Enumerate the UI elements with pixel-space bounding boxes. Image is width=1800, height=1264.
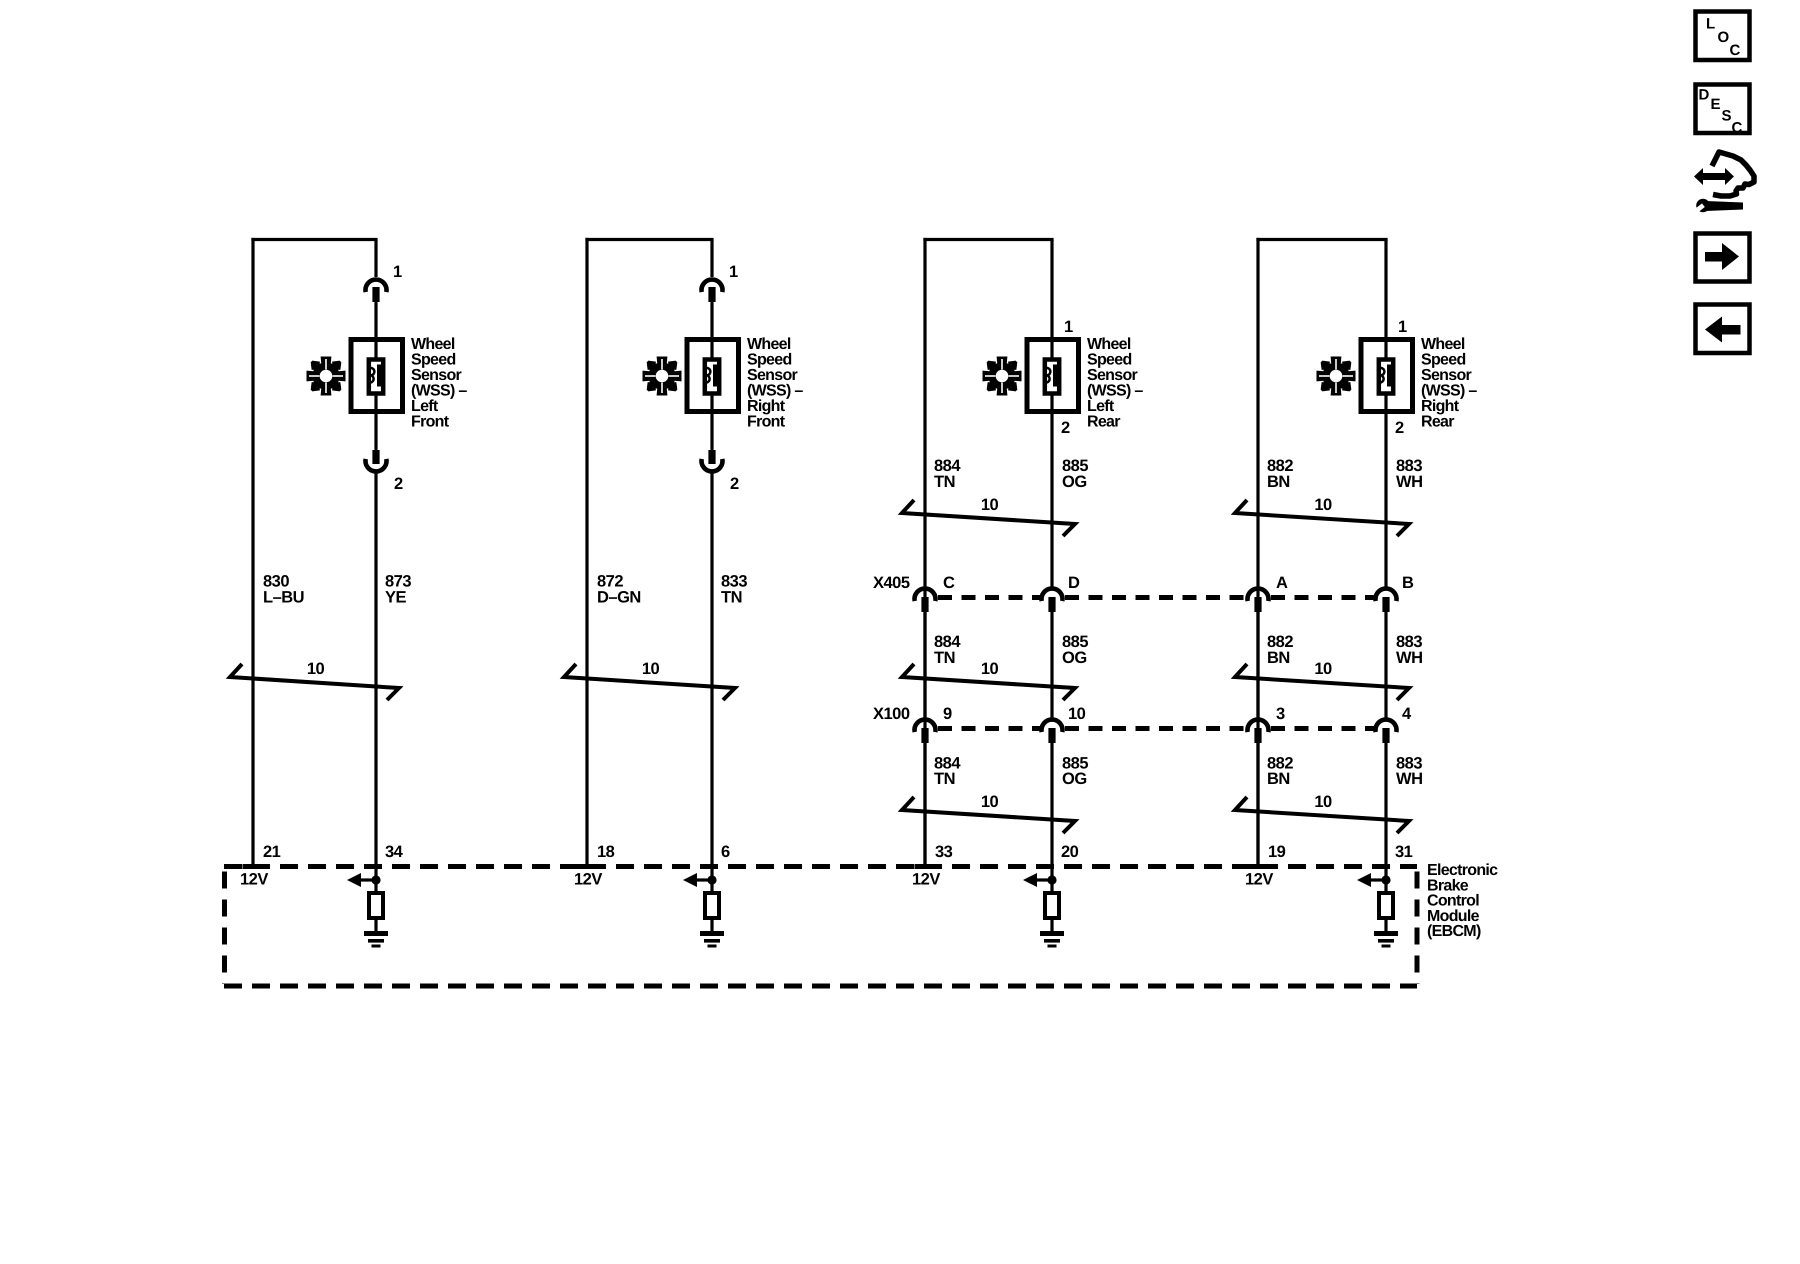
svg-text:X100: X100 [873, 705, 910, 723]
svg-text:Rear: Rear [1421, 413, 1454, 430]
EBCM pin 6 label [721, 843, 730, 861]
wire label 883 WH [1396, 457, 1423, 491]
label: Wheel Speed Sensor (WSS) Right Rear [1421, 336, 1477, 431]
icon: right arrow box [1696, 234, 1750, 282]
svg-text:21: 21 [263, 843, 281, 861]
sensor WSS Left Rear [1027, 340, 1079, 412]
svg-text:10: 10 [981, 496, 999, 514]
svg-text:33: 33 [935, 843, 953, 861]
svg-text:10: 10 [642, 660, 660, 678]
pin 1 label [1064, 318, 1073, 336]
wire label 884 TN [934, 457, 961, 491]
wire through sensor box down to X405 [1050, 240, 1053, 588]
EBCM pin 33 label [935, 843, 953, 861]
resistor (EBCM internal, pin 34) [369, 893, 383, 918]
svg-text:D: D [1068, 574, 1080, 592]
svg-text:10: 10 [981, 793, 999, 811]
svg-text:Wheel: Wheel [411, 336, 455, 353]
twisted pair crossing upper (Right Rear) [1235, 496, 1409, 536]
svg-text:2: 2 [1061, 419, 1070, 437]
connector X405 terminal C [915, 589, 936, 612]
node label 12V [574, 871, 602, 889]
node label 12V [1245, 871, 1273, 889]
svg-text:TN: TN [934, 770, 955, 788]
svg-text:Sensor: Sensor [747, 367, 798, 384]
svg-text:B: B [1402, 574, 1414, 592]
connector X100 label [873, 705, 910, 723]
pin 2 label [394, 475, 403, 493]
svg-text:2: 2 [394, 475, 403, 493]
svg-text:12V: 12V [574, 871, 602, 889]
svg-text:10: 10 [1314, 496, 1332, 514]
wire label 883 WH (mid) [1396, 633, 1423, 667]
svg-text:X405: X405 [873, 574, 910, 592]
wire X100 to EBCM (right) [1050, 743, 1053, 867]
icon: diagnostic (arrows + wrench) [1693, 152, 1754, 214]
svg-text:Speed: Speed [1087, 351, 1132, 368]
connector X405 terminal B [1376, 589, 1397, 612]
wire: Right Front WSS pin 1 loop from EBCM pin 18 [585, 238, 713, 865]
svg-text:Speed: Speed [1421, 351, 1466, 368]
svg-text:10: 10 [307, 660, 325, 678]
gear (wheel tone ring) Right Rear [1317, 357, 1356, 396]
svg-text:TN: TN [934, 473, 955, 491]
svg-text:(WSS) –: (WSS) – [747, 382, 803, 399]
EBCM pin 20 label [1061, 843, 1079, 861]
signal arrow into EBCM [683, 873, 717, 887]
EBCM pin 18 label [597, 843, 615, 861]
X100 pin number 9 [943, 705, 952, 723]
wire label 830 L–BU [263, 573, 304, 607]
svg-text:19: 19 [1268, 843, 1286, 861]
svg-text:20: 20 [1061, 843, 1079, 861]
wire X100 to EBCM (left) [923, 743, 926, 865]
svg-text:2: 2 [1395, 419, 1404, 437]
wire X100 to EBCM (right) [1384, 743, 1387, 867]
pin 1 label [393, 263, 402, 281]
connector X100 terminal 10 [1042, 720, 1063, 743]
svg-text:Front: Front [411, 413, 450, 430]
signal arrow into EBCM [1357, 873, 1391, 887]
sensor WSS Left Front [351, 340, 403, 412]
svg-text:18: 18 [597, 843, 615, 861]
wire resistor to ground [1050, 920, 1053, 933]
wire pin 2 down to EBCM [374, 473, 377, 867]
node label 12V [912, 871, 940, 889]
terminal pad pin 18 at EBCM [577, 864, 598, 869]
svg-text:Left: Left [411, 398, 439, 415]
wire pin 2 down to EBCM [710, 473, 713, 867]
svg-text:BN: BN [1267, 770, 1290, 788]
connector X405 terminal D [1042, 589, 1063, 612]
twisted pair crossing middle (Left Rear) [902, 660, 1075, 700]
pin 1 label [1398, 318, 1407, 336]
svg-text:WH: WH [1396, 770, 1423, 788]
connector X405 dashed harness line [938, 595, 1374, 600]
gear (wheel tone ring) Left Front [307, 357, 346, 396]
svg-text:WH: WH [1396, 473, 1423, 491]
sensor WSS Right Rear [1361, 340, 1413, 412]
wire label 885 OG (mid) [1062, 633, 1088, 667]
svg-text:2: 2 [730, 475, 739, 493]
svg-text:4: 4 [1402, 705, 1412, 723]
svg-text:Wheel: Wheel [1421, 336, 1465, 353]
wire X405 to X100 (right) [1384, 612, 1387, 718]
X405 pin letter C [943, 574, 955, 592]
ground symbol [1374, 931, 1398, 948]
twisted pair crossing upper (Left Rear) [902, 496, 1075, 536]
label: Wheel Speed Sensor (WSS) Left Rear [1087, 336, 1143, 431]
resistor (EBCM internal, pin 31) [1379, 893, 1393, 918]
X405 pin letter D [1068, 574, 1080, 592]
gear (wheel tone ring) Left Rear [983, 357, 1022, 396]
svg-text:Front: Front [747, 413, 786, 430]
svg-text:OG: OG [1062, 770, 1087, 788]
wire: Right Rear WSS pin 1 loop from EBCM pin 19 [1256, 238, 1387, 865]
svg-text:Sensor: Sensor [1087, 367, 1138, 384]
wire label 873 YE [385, 573, 411, 607]
svg-text:6: 6 [721, 843, 730, 861]
connector X405 label [873, 574, 910, 592]
gear (wheel tone ring) Right Front [643, 357, 682, 396]
svg-text:Left: Left [1087, 398, 1115, 415]
svg-text:BN: BN [1267, 649, 1290, 667]
wire label 882 BN (lower) [1267, 755, 1293, 789]
connector X100 dashed harness line [938, 726, 1374, 731]
svg-text:Right: Right [747, 398, 786, 415]
wire X100 to EBCM (left) [1256, 743, 1259, 865]
signal arrow into EBCM [1023, 873, 1057, 887]
connector X100 terminal 3 [1248, 720, 1269, 743]
resistor (EBCM internal, pin 6) [705, 893, 719, 918]
svg-text:Right: Right [1421, 398, 1460, 415]
svg-text:Rear: Rear [1087, 413, 1120, 430]
twisted pair crossing middle (Right Rear) [1235, 660, 1409, 700]
wire label 833 TN [721, 573, 747, 607]
wire resistor to ground [1384, 920, 1387, 933]
wire EBCM entry to resistor [374, 867, 377, 893]
inline connector terminal pin 1 (Right Front) [702, 280, 723, 302]
svg-text:L–BU: L–BU [263, 589, 304, 607]
wire X405 to X100 (left) [1256, 612, 1259, 718]
wire EBCM entry to resistor [710, 867, 713, 893]
svg-text:OG: OG [1062, 649, 1087, 667]
wire top to inline connector pin 1 [374, 240, 377, 278]
svg-text:D: D [1699, 87, 1710, 104]
svg-text:(WSS) –: (WSS) – [1421, 382, 1477, 399]
svg-text:S: S [1722, 108, 1732, 125]
wire label 883 WH (lower) [1396, 755, 1423, 789]
ground symbol [700, 931, 724, 948]
icon: LOC box [1696, 12, 1750, 61]
node label 12V [240, 871, 268, 889]
svg-text:Speed: Speed [411, 351, 456, 368]
svg-text:34: 34 [385, 843, 404, 861]
wire label 882 BN [1267, 457, 1293, 491]
pin 1 label [729, 263, 738, 281]
twisted pair crossing lower (Right Rear) [1235, 793, 1409, 833]
sensor WSS Right Front [687, 340, 739, 412]
connector X100 terminal 9 [915, 720, 936, 743]
inline connector terminal pin 2 (Left Front) [366, 450, 387, 471]
svg-text:12V: 12V [1245, 871, 1273, 889]
EBCM pin 19 label [1268, 843, 1286, 861]
wire through sensor box down to X405 [1384, 240, 1387, 588]
wire label 884 TN (mid) [934, 633, 961, 667]
icon: left arrow box [1696, 305, 1750, 354]
pin 2 label [1061, 419, 1070, 437]
svg-text:A: A [1276, 574, 1288, 592]
svg-text:Sensor: Sensor [411, 367, 462, 384]
X405 pin letter B [1402, 574, 1414, 592]
svg-text:C: C [1732, 120, 1743, 137]
svg-text:TN: TN [721, 589, 742, 607]
EBCM pin 31 label [1395, 843, 1413, 861]
pin 2 label [730, 475, 739, 493]
twisted pair crossing (Left Front) [230, 660, 399, 700]
connector X100 terminal 4 [1376, 720, 1397, 743]
X100 pin number 4 [1402, 705, 1412, 723]
svg-text:1: 1 [1064, 318, 1073, 336]
svg-text:E: E [1711, 96, 1721, 113]
wire resistor to ground [710, 920, 713, 933]
wire X405 to X100 (right) [1050, 612, 1053, 718]
svg-text:10: 10 [1068, 705, 1086, 723]
label: Wheel Speed Sensor (WSS) Right Front [747, 336, 803, 431]
resistor (EBCM internal, pin 20) [1045, 893, 1059, 918]
label: Wheel Speed Sensor (WSS) Left Front [411, 336, 467, 431]
wire label 882 BN (mid) [1267, 633, 1293, 667]
signal arrow into EBCM [347, 873, 381, 887]
inline connector terminal pin 2 (Right Front) [702, 450, 723, 471]
svg-text:WH: WH [1396, 649, 1423, 667]
wire EBCM entry to resistor [1050, 867, 1053, 893]
ground symbol [364, 931, 388, 948]
svg-text:TN: TN [934, 649, 955, 667]
connector X405 terminal A [1248, 589, 1269, 612]
EBCM label: Electronic Brake Control Module (EBCM) [1427, 862, 1498, 940]
terminal pad pin 21 at EBCM [243, 864, 264, 869]
svg-text:C: C [943, 574, 955, 592]
svg-text:1: 1 [393, 263, 402, 281]
wire label 872 D–GN [597, 573, 641, 607]
svg-text:C: C [1730, 42, 1741, 59]
wire top to inline connector pin 1 [710, 240, 713, 278]
svg-text:Speed: Speed [747, 351, 792, 368]
svg-text:Wheel: Wheel [747, 336, 791, 353]
wire label 884 TN (lower) [934, 755, 961, 789]
wire: Left Front WSS pin 1 loop from EBCM pin 21 [251, 238, 377, 865]
wire pin1 through sensor to pin 2 [374, 300, 377, 452]
twisted pair crossing lower (Left Rear) [902, 793, 1075, 833]
ground symbol [1040, 931, 1064, 948]
X405 pin letter A [1276, 574, 1288, 592]
svg-text:Sensor: Sensor [1421, 367, 1472, 384]
svg-text:Wheel: Wheel [1087, 336, 1131, 353]
icon: DESC box [1696, 85, 1750, 137]
svg-text:L: L [1706, 16, 1715, 33]
wire label 885 OG (lower) [1062, 755, 1088, 789]
svg-text:(EBCM): (EBCM) [1427, 923, 1481, 940]
terminal pad pin 19 at EBCM [1248, 864, 1269, 869]
svg-text:(WSS) –: (WSS) – [411, 382, 467, 399]
svg-text:12V: 12V [240, 871, 268, 889]
pin 2 label [1395, 419, 1404, 437]
svg-text:BN: BN [1267, 473, 1290, 491]
svg-text:3: 3 [1276, 705, 1285, 723]
wire X405 to X100 (left) [923, 612, 926, 718]
svg-text:1: 1 [729, 263, 738, 281]
svg-text:9: 9 [943, 705, 952, 723]
svg-text:D–GN: D–GN [597, 589, 641, 607]
terminal pad pin 33 at EBCM [915, 864, 936, 869]
twisted pair crossing (Right Front) [564, 660, 735, 700]
svg-text:O: O [1718, 29, 1730, 46]
wire label 885 OG [1062, 457, 1088, 491]
svg-text:YE: YE [385, 589, 407, 607]
svg-text:OG: OG [1062, 473, 1087, 491]
wire pin1 through sensor to pin 2 [710, 300, 713, 452]
svg-text:(WSS) –: (WSS) – [1087, 382, 1143, 399]
wire EBCM entry to resistor [1384, 867, 1387, 893]
inline connector terminal pin 1 (Left Front) [366, 280, 387, 302]
X100 pin number 10 [1068, 705, 1086, 723]
wire resistor to ground [374, 920, 377, 933]
EBCM module dashed box [224, 867, 1417, 987]
svg-text:10: 10 [1314, 793, 1332, 811]
svg-text:1: 1 [1398, 318, 1407, 336]
svg-text:10: 10 [981, 660, 999, 678]
svg-text:10: 10 [1314, 660, 1332, 678]
svg-text:12V: 12V [912, 871, 940, 889]
EBCM pin 34 label [385, 843, 404, 861]
EBCM pin 21 label [263, 843, 281, 861]
wire: Left Rear WSS pin 1 loop from EBCM pin 33 [923, 238, 1053, 865]
svg-text:31: 31 [1395, 843, 1413, 861]
X100 pin number 3 [1276, 705, 1285, 723]
